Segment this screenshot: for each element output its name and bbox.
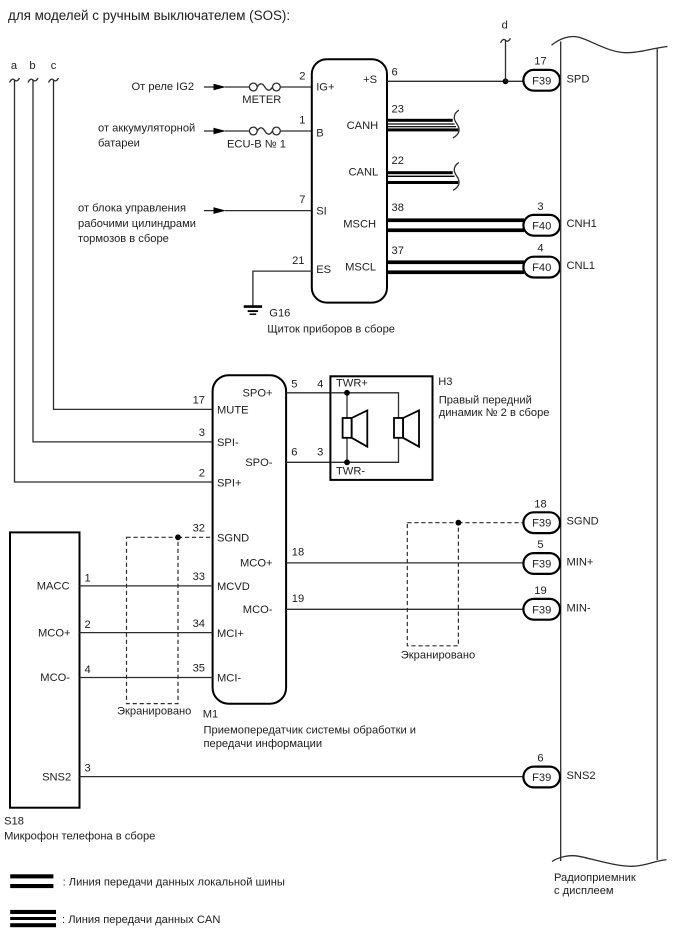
- svg-text:6: 6: [291, 446, 297, 458]
- svg-text:METER: METER: [242, 94, 281, 106]
- shield box right: [401, 523, 475, 662]
- caption S18: [4, 816, 155, 843]
- pin 5 (MIN+): [537, 539, 543, 551]
- svg-text:от аккумуляторной: от аккумуляторной: [98, 123, 195, 135]
- pin 3 (SPI-): [199, 427, 205, 439]
- svg-text:MCO+: MCO+: [240, 558, 273, 570]
- feed label: от аккумуляторной батареи: [98, 123, 195, 150]
- junction dot d: [503, 78, 509, 84]
- svg-text:SPD: SPD: [567, 73, 590, 85]
- svg-text:: Линия передачи данных CAN: : Линия передачи данных CAN: [62, 914, 220, 926]
- pin 6 (SPO-): [291, 446, 297, 458]
- svg-text:a: a: [11, 60, 18, 72]
- svg-text:H3: H3: [438, 376, 452, 388]
- net MIN-: [567, 602, 591, 614]
- wire b: [28, 78, 213, 442]
- pin 2 (SPI+): [199, 468, 205, 480]
- svg-text:G16: G16: [269, 308, 290, 320]
- svg-text:От реле IG2: От реле IG2: [132, 81, 195, 93]
- svg-text:18: 18: [534, 498, 546, 510]
- svg-text:22: 22: [392, 155, 404, 167]
- svg-text:6: 6: [392, 66, 398, 78]
- shield box left: [117, 537, 191, 717]
- wire ES to ground: [253, 271, 312, 306]
- radio left rail: [560, 42, 562, 862]
- arrow into B wire: [204, 128, 250, 135]
- ground G16: [244, 307, 291, 320]
- svg-text:d: d: [502, 20, 508, 32]
- combination meter block U1: [312, 59, 387, 302]
- net SNS2: [567, 770, 596, 782]
- svg-text:M1: M1: [203, 709, 218, 721]
- node a: [11, 60, 18, 72]
- svg-text:33: 33: [193, 571, 205, 583]
- pin 18 (SGND): [534, 498, 546, 510]
- svg-text:MUTE: MUTE: [217, 405, 249, 417]
- fuse METER: [242, 83, 281, 106]
- wire SGND dashed: [178, 536, 213, 538]
- pin 5 (SPO+): [291, 378, 297, 390]
- connector F40 CNH1: [523, 215, 560, 236]
- svg-text:21: 21: [292, 255, 304, 267]
- svg-text:SPO-: SPO-: [245, 457, 273, 469]
- legend local bus symbol: [10, 874, 53, 888]
- svg-text:динамик № 2 в сборе: динамик № 2 в сборе: [439, 407, 550, 419]
- net CNL1: [567, 260, 595, 272]
- pin 7 (SI): [299, 194, 305, 206]
- svg-text:3: 3: [537, 201, 543, 213]
- svg-text:19: 19: [292, 593, 304, 605]
- connector F39 MIN-: [523, 599, 560, 620]
- wire +S to F39 SPD: [387, 80, 523, 82]
- svg-text:4: 4: [317, 378, 323, 390]
- junction SGND left: [175, 534, 181, 540]
- connector F39 MIN+: [523, 553, 560, 574]
- svg-text:: Линия передачи данных локаль: : Линия передачи данных локальной шины: [63, 876, 285, 888]
- svg-text:23: 23: [392, 103, 404, 115]
- wire fuse to B: [280, 130, 312, 132]
- svg-text:SPI+: SPI+: [217, 478, 241, 490]
- svg-text:6: 6: [537, 753, 543, 765]
- svg-text:F39: F39: [532, 772, 551, 784]
- caption M1: [203, 709, 416, 750]
- svg-text:c: c: [51, 60, 57, 72]
- svg-text:2: 2: [299, 71, 305, 83]
- svg-text:IG+: IG+: [316, 82, 334, 94]
- pin 4: [537, 243, 543, 255]
- junction TWR-: [344, 459, 350, 465]
- arrow into SI wire: [204, 207, 312, 214]
- CAN bus CANH: [387, 110, 459, 138]
- pin 23: [392, 103, 404, 115]
- svg-text:+S: +S: [363, 74, 377, 86]
- svg-text:MCO+: MCO+: [38, 627, 71, 639]
- svg-text:5: 5: [537, 539, 543, 551]
- svg-text:3: 3: [199, 427, 205, 439]
- pin 19 (MCO-): [292, 593, 304, 605]
- svg-text:Правый передний: Правый передний: [439, 394, 532, 406]
- fuse ECU-B No1: [227, 127, 286, 150]
- svg-text:4: 4: [537, 243, 543, 255]
- svg-text:18: 18: [292, 546, 304, 558]
- svg-text:S18: S18: [4, 816, 24, 828]
- svg-text:B: B: [316, 128, 323, 140]
- svg-text:F40: F40: [532, 262, 551, 274]
- svg-text:SI: SI: [316, 205, 327, 217]
- svg-text:F39: F39: [532, 75, 551, 87]
- pin 33 (MCVD): [193, 571, 205, 583]
- wire MCO+ to MIN+: [286, 562, 523, 564]
- svg-text:38: 38: [392, 202, 404, 214]
- wire SPO+ to TWR+: [286, 392, 330, 394]
- radio right rail: [656, 48, 658, 860]
- pin 37: [392, 245, 404, 257]
- connector F39 SPD: [523, 70, 560, 91]
- svg-text:SPI-: SPI-: [217, 437, 239, 449]
- svg-text:SGND: SGND: [217, 532, 249, 544]
- wire a: [10, 78, 213, 482]
- local bus MSCH: [387, 218, 524, 232]
- pin 3 (SNS2): [85, 763, 91, 775]
- local bus MSCL: [387, 260, 524, 274]
- pin 17: [534, 56, 546, 68]
- pin 32 (SGND): [193, 523, 205, 535]
- pin 3 (TWR-): [317, 446, 323, 458]
- svg-text:MSCL: MSCL: [345, 262, 376, 274]
- pin 2 (MCO+): [85, 619, 91, 631]
- svg-text:5: 5: [291, 378, 297, 390]
- svg-text:1: 1: [85, 573, 91, 585]
- pin 21 (ES): [292, 255, 304, 267]
- svg-text:SNS2: SNS2: [42, 771, 71, 783]
- caption: Щиток приборов в сборе: [267, 323, 395, 335]
- svg-text:19: 19: [534, 585, 546, 597]
- node d: [501, 20, 511, 82]
- microphone block S18: [10, 532, 80, 807]
- pin 17 (MUTE): [193, 395, 205, 407]
- svg-text:2: 2: [199, 468, 205, 480]
- pin 2 (IG+): [299, 71, 305, 83]
- svg-text:MCO-: MCO-: [243, 604, 273, 616]
- svg-text:b: b: [29, 60, 35, 72]
- svg-text:Щиток приборов в сборе: Щиток приборов в сборе: [267, 323, 395, 335]
- svg-text:32: 32: [193, 523, 205, 535]
- svg-text:передачи информации: передачи информации: [204, 738, 323, 750]
- speaker SP2: [394, 410, 419, 446]
- pin 38: [392, 202, 404, 214]
- junction TWR+: [344, 390, 350, 396]
- svg-text:7: 7: [299, 194, 305, 206]
- wire MCO- to MIN-: [286, 608, 523, 610]
- wire c: [49, 78, 213, 409]
- svg-text:Экранировано: Экранировано: [117, 706, 191, 718]
- svg-text:рабочими цилиндрами: рабочими цилиндрами: [78, 218, 196, 230]
- svg-text:1: 1: [299, 115, 305, 127]
- svg-text:MSCH: MSCH: [343, 219, 376, 231]
- svg-text:CANL: CANL: [348, 167, 378, 179]
- svg-text:MCI-: MCI-: [217, 673, 241, 685]
- svg-text:34: 34: [193, 618, 205, 630]
- pin 6 (SNS2): [537, 753, 543, 765]
- svg-text:3: 3: [317, 446, 323, 458]
- node c: [51, 60, 57, 72]
- svg-text:Микрофон телефона в сборе: Микрофон телефона в сборе: [4, 830, 155, 842]
- pin 18 (MCO+): [292, 546, 304, 558]
- pin 1 (MACC): [85, 573, 91, 585]
- svg-text:F39: F39: [532, 518, 551, 530]
- pin 1 (B): [299, 115, 305, 127]
- pin 35 (MCI-): [193, 663, 205, 675]
- wire fuse to IG+: [280, 86, 312, 88]
- svg-text:F39: F39: [532, 604, 551, 616]
- svg-text:батареи: батареи: [98, 137, 140, 149]
- net CNH1: [567, 218, 597, 230]
- svg-text:Экранировано: Экранировано: [401, 649, 475, 661]
- connector F39 SNS2: [523, 767, 560, 788]
- net MIN+: [567, 557, 594, 569]
- pin 4 (MCO-): [85, 664, 91, 676]
- svg-text:3: 3: [85, 763, 91, 775]
- CAN bus CANL: [387, 163, 459, 191]
- svg-text:TWR+: TWR+: [336, 378, 368, 390]
- svg-text:CNL1: CNL1: [567, 260, 595, 272]
- svg-text:2: 2: [85, 619, 91, 631]
- node b: [29, 60, 35, 72]
- caption: Радиоприемник с дисплеем: [554, 872, 636, 897]
- svg-text:SGND: SGND: [567, 516, 599, 528]
- svg-text:MCVD: MCVD: [217, 581, 250, 593]
- legend CAN symbol: [10, 910, 56, 927]
- legend local bus text: [63, 876, 285, 888]
- transceiver block M1: [213, 375, 287, 704]
- radio top wave: [552, 37, 668, 53]
- svg-text:MACC: MACC: [37, 581, 70, 593]
- svg-text:от блока управления: от блока управления: [78, 203, 186, 215]
- svg-text:ECU-B № 1: ECU-B № 1: [227, 139, 286, 151]
- svg-text:тормозов в сборе: тормозов в сборе: [78, 233, 169, 245]
- pin 3: [537, 201, 543, 213]
- svg-text:SPO+: SPO+: [242, 388, 272, 400]
- pin 6 (+S): [392, 66, 398, 78]
- svg-text:MCI+: MCI+: [217, 628, 244, 640]
- svg-text:TWR-: TWR-: [336, 466, 365, 478]
- svg-text:F40: F40: [532, 220, 551, 232]
- feed label: от блока управления: [78, 203, 196, 245]
- wire speaker tap: [346, 393, 348, 463]
- wire MCO+ to MCI+: [80, 632, 213, 634]
- wire MACC to MCVD: [80, 585, 213, 587]
- svg-text:37: 37: [392, 245, 404, 257]
- svg-text:SNS2: SNS2: [567, 770, 596, 782]
- label H3: [438, 376, 549, 419]
- wire MCO- to MCI-: [80, 677, 213, 679]
- pin 4 (TWR+): [317, 378, 323, 390]
- svg-text:с дисплеем: с дисплеем: [554, 885, 614, 897]
- radio bottom wave: [552, 856, 667, 867]
- svg-text:Радиоприемник: Радиоприемник: [554, 872, 636, 884]
- legend CAN text: [62, 914, 220, 926]
- pin 22: [392, 155, 404, 167]
- svg-text:MIN-: MIN-: [567, 602, 591, 614]
- svg-text:4: 4: [85, 664, 91, 676]
- wire SNS2: [80, 776, 524, 778]
- net SGND: [567, 516, 599, 528]
- svg-text:17: 17: [193, 395, 205, 407]
- arrow into IG+ wire: [204, 84, 250, 91]
- pin 34 (MCI+): [193, 618, 205, 630]
- svg-text:Приемопередатчик системы обраб: Приемопередатчик системы обработки и: [204, 724, 417, 736]
- svg-text:17: 17: [534, 56, 546, 68]
- wire SPO- to TWR-: [286, 461, 330, 463]
- svg-text:MCO-: MCO-: [40, 672, 70, 684]
- wire SGND dashed right: [458, 522, 523, 524]
- connector F40 CNL1: [523, 257, 560, 278]
- net SPD: [567, 73, 590, 85]
- speaker box H3: [330, 376, 432, 480]
- svg-text:ES: ES: [316, 264, 331, 276]
- feed label: От реле IG2: [132, 81, 195, 93]
- svg-text:CANH: CANH: [347, 120, 379, 132]
- svg-text:35: 35: [193, 663, 205, 675]
- speaker SP1: [343, 410, 368, 446]
- svg-text:MIN+: MIN+: [567, 557, 594, 569]
- svg-text:F39: F39: [532, 559, 551, 571]
- junction SGND right: [456, 520, 462, 526]
- wire TWR+ loop: [330, 393, 398, 463]
- svg-text:для моделей с ручным выключате: для моделей с ручным выключателем (SOS):: [8, 8, 290, 23]
- connector F39 SGND: [523, 512, 560, 533]
- svg-text:CNH1: CNH1: [567, 218, 597, 230]
- pin 19 (MIN-): [534, 585, 546, 597]
